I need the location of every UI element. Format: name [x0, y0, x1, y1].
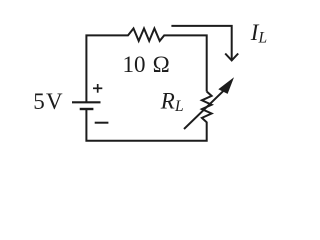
svg-text:Ω: Ω: [153, 52, 170, 77]
svg-text:V: V: [46, 89, 63, 114]
svg-text:R: R: [160, 89, 175, 114]
svg-text:L: L: [174, 98, 184, 115]
svg-text:5: 5: [33, 89, 45, 114]
svg-text:L: L: [258, 30, 268, 47]
svg-text:10: 10: [123, 52, 146, 77]
